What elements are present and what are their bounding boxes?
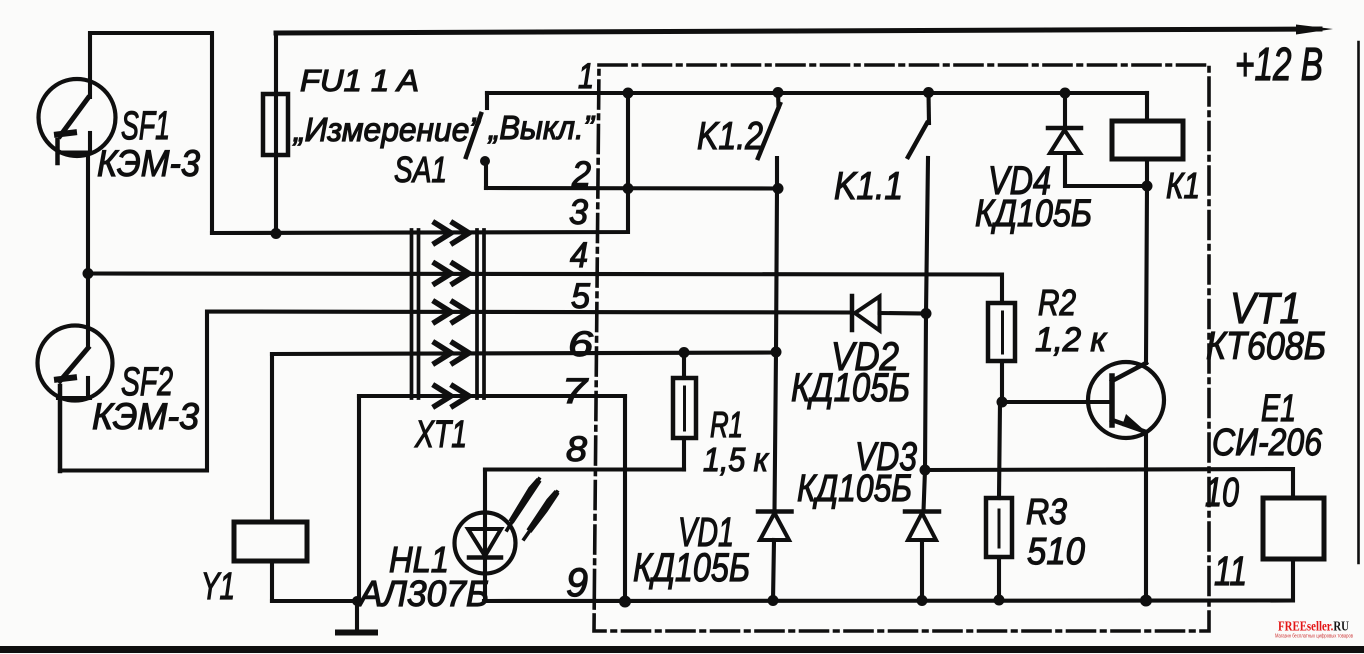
LED HL1 [455, 479, 558, 601]
svg-text:КТ608Б: КТ608Б [1206, 325, 1326, 368]
lamp E1 [1263, 498, 1324, 601]
svg-text:СИ-206: СИ-206 [1212, 422, 1323, 464]
junction dot VD1 row9 [768, 595, 779, 606]
svg-text:2: 2 [571, 155, 591, 194]
svg-text:Y1: Y1 [201, 566, 235, 608]
svg-text:КД105Б: КД105Б [975, 193, 1092, 235]
svg-text:R2: R2 [1038, 282, 1076, 323]
wire +12V top rail with arrow [276, 25, 1333, 35]
junction dot K1 bottom [1142, 181, 1153, 192]
diode VD4 [1048, 93, 1147, 186]
relay contact K1.2 [758, 87, 784, 158]
svg-text:10: 10 [1205, 469, 1239, 515]
diode VD3 [905, 512, 939, 601]
junction dot VD4 row1 [1060, 88, 1071, 99]
junction dot VD3 row9 [917, 595, 928, 606]
svg-text:6: 6 [568, 325, 594, 364]
svg-text:SA1: SA1 [394, 149, 447, 190]
junction dot base node [997, 397, 1008, 408]
svg-text:„Выкл.”: „Выкл.” [487, 109, 596, 146]
wire row7 right drop to row9 [623, 396, 627, 602]
junction dot VT1 emitter row9 [1140, 595, 1152, 607]
svg-text:3: 3 [569, 193, 589, 232]
wire SF1 bottom to row4 junction and down to SF2 [86, 153, 90, 348]
connector XT1 arrows row4 [435, 264, 469, 284]
svg-text:5: 5 [571, 277, 591, 316]
fuse FU1 [263, 33, 288, 234]
wire row8 [485, 467, 684, 471]
resistor R3 [986, 402, 1012, 600]
junction dot R1 row6 [679, 347, 690, 358]
wire base lead [1002, 400, 1112, 404]
svg-text:КД105Б: КД105Б [791, 366, 910, 410]
wire K1.2 / VD1 vertical [775, 158, 778, 511]
svg-text:R1: R1 [710, 404, 743, 445]
svg-text:КЭМ-3: КЭМ-3 [97, 143, 200, 184]
svg-text:510: 510 [1027, 531, 1085, 573]
svg-text:11: 11 [1214, 548, 1247, 594]
electromagnet Y1 [234, 354, 307, 601]
svg-text:7: 7 [562, 372, 589, 411]
page border bottom [0, 646, 1364, 653]
svg-text:„Измерение”: „Измерение” [292, 111, 482, 148]
switch SA1 [466, 93, 490, 188]
wire SF1 top box: up, across, down to row3 [90, 33, 212, 233]
relay contact K1.1 [908, 87, 934, 157]
svg-text:КЭМ-3: КЭМ-3 [92, 396, 199, 437]
ground [338, 596, 375, 633]
junction dot row1/jumper [623, 88, 634, 99]
wire row3 [212, 93, 628, 233]
svg-text:К1: К1 [1166, 165, 1200, 206]
svg-text:K1.1: K1.1 [834, 165, 903, 208]
reed switch SF2 [38, 326, 113, 472]
svg-text:КД105Б: КД105Б [633, 546, 750, 590]
watermark FREEseller.RU [1275, 620, 1353, 640]
connector XT1 arrows row5 [435, 302, 469, 322]
wire SF2 bottom loop to row5 [60, 312, 852, 471]
page border right [1357, 42, 1360, 563]
junction dot jumper row9 [619, 596, 631, 608]
resistor R2 [988, 303, 1015, 402]
svg-text:Магазин бесплатных цифровых то: Магазин бесплатных цифровых товаров [1275, 634, 1353, 640]
wire row6 [272, 353, 777, 355]
svg-text:1,2 к: 1,2 к [1035, 321, 1108, 359]
wire row2 [486, 186, 778, 191]
reed switch SF1 [39, 79, 116, 163]
wire HL1 top [483, 470, 487, 514]
svg-text:SF1: SF1 [121, 104, 170, 148]
junction dot FU1/row3 [271, 228, 282, 239]
wire row7 left drop to ground node [357, 396, 361, 601]
connector XT1 arrows row6 [435, 343, 469, 363]
junction dot row2/jumper [623, 183, 634, 194]
svg-text:8: 8 [566, 430, 588, 469]
junction dot VD2/K1.1 [921, 308, 932, 319]
svg-text:КД105Б: КД105Б [797, 468, 912, 510]
wire row1 [487, 91, 1147, 95]
svg-text:K1.2: K1.2 [697, 115, 763, 158]
wire K1.1 / VD3 vertical [924, 158, 929, 511]
junction dot row4/SF1 [83, 268, 94, 279]
svg-text:FU1 1 A: FU1 1 A [300, 63, 419, 98]
junction dot row10/VD3 [920, 465, 931, 476]
svg-text:9: 9 [566, 561, 588, 605]
svg-text:FREEseller.RU: FREEseller.RU [1278, 620, 1349, 635]
junction dot row6/VD1 [771, 347, 782, 358]
wire collector vertical [1146, 186, 1147, 363]
wire row7 [359, 394, 625, 398]
wire row9 main [484, 598, 1291, 603]
wire row4 [88, 274, 1002, 304]
junction dot R3 row9 [994, 595, 1005, 606]
svg-text:+12 В: +12 В [1235, 38, 1323, 90]
svg-text:XT1: XT1 [414, 414, 467, 456]
svg-text:АЛ307Б: АЛ307Б [357, 573, 489, 614]
svg-text:1: 1 [578, 57, 594, 96]
wire row10 to lamp E1 [925, 469, 1293, 498]
resistor R1 [673, 353, 696, 470]
connector XT1 arrows row7 [435, 386, 469, 406]
dash-dot enclosure box [594, 65, 1209, 631]
junction dot K1.2 row2 [773, 183, 784, 194]
wire emitter vertical [1144, 432, 1148, 601]
svg-text:4: 4 [570, 236, 588, 275]
relay coil K1 [1112, 93, 1183, 186]
diode VD1 [758, 512, 792, 602]
wire row9 left segment [272, 599, 357, 603]
connector XT1 arrows row3 [435, 223, 469, 243]
transistor VT1 [1088, 362, 1164, 438]
svg-text:R3: R3 [1026, 491, 1067, 532]
diode VD2 [852, 296, 926, 331]
svg-text:1,5 к: 1,5 к [703, 441, 769, 478]
connector XT1 columns [412, 230, 485, 398]
